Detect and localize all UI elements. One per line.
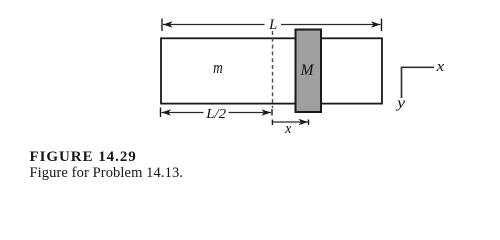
figure caption line 2	[30, 166, 184, 181]
svg-text:M: M	[300, 62, 315, 79]
svg-text:x: x	[284, 121, 291, 137]
dimension L: right tick	[381, 19, 383, 32]
svg-text:x: x	[435, 59, 444, 75]
dimension L: left tick	[161, 19, 163, 32]
dimension L/2: left line segment	[162, 112, 204, 114]
block M	[296, 30, 322, 113]
dimension L/2: right tick	[271, 109, 273, 116]
dashed center line	[272, 31, 274, 108]
svg-text:L/2: L/2	[205, 107, 226, 122]
svg-text:y: y	[395, 96, 406, 112]
figure caption line 1	[30, 150, 137, 165]
dimension L: right line segment	[281, 24, 381, 26]
rod (bar) of mass m	[161, 38, 382, 103]
dimension x: right tick	[308, 120, 310, 126]
dimension L/2: right line segment	[229, 112, 272, 114]
dimension L: right arrowhead	[371, 21, 381, 28]
dimension x: right arrowhead	[299, 119, 309, 126]
dimension x: left tick	[271, 120, 273, 126]
svg-text:L: L	[268, 17, 277, 33]
coordinate axes corner	[402, 67, 435, 98]
dimension L/2: left arrowhead	[162, 109, 172, 116]
dimension L: left arrowhead	[163, 21, 173, 28]
dimension L/2: right arrowhead	[262, 109, 272, 116]
dimension L: left line segment	[163, 24, 265, 26]
dimension x: line	[272, 121, 308, 123]
dimension L/2: left tick	[160, 108, 162, 118]
svg-text:m: m	[213, 58, 223, 77]
